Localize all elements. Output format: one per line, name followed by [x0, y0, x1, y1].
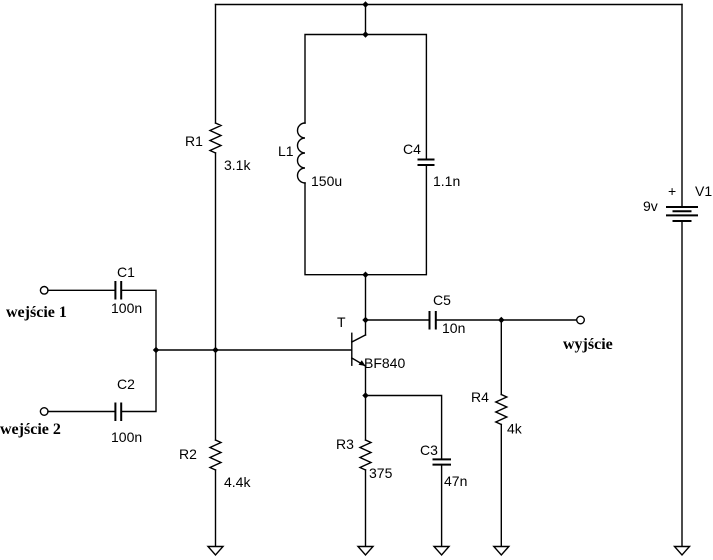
svg-text:1.1n: 1.1n [433, 173, 460, 189]
node input join junction [153, 347, 159, 353]
wire emitter to C3 [366, 396, 442, 460]
svg-text:L1: L1 [278, 143, 294, 159]
capacitor C3 [434, 458, 451, 460]
wire collector to C5 [366, 319, 430, 321]
battery V1 [643, 183, 712, 221]
node R4 junction [498, 317, 504, 323]
terminal wejscie 1 [40, 287, 48, 295]
wire V1 bottom [681, 221, 683, 546]
svg-text:T: T [337, 314, 346, 330]
wire input2 to C2 [48, 411, 115, 413]
node collector junction [362, 317, 368, 323]
svg-text:10n: 10n [442, 320, 465, 336]
transistor T BF840 [337, 314, 405, 396]
ground under R4 [494, 547, 509, 556]
svg-text:C2: C2 [117, 376, 135, 392]
wire tank top [305, 35, 426, 160]
wire input1 to C1 [48, 289, 115, 291]
node tank bottom junction [362, 272, 368, 278]
svg-text:R1: R1 [185, 133, 203, 149]
wire tank bottom [305, 165, 426, 275]
svg-text:100n: 100n [111, 300, 142, 316]
svg-text:150u: 150u [311, 173, 342, 189]
svg-text:C1: C1 [117, 264, 135, 280]
resistor R3 [336, 396, 393, 547]
resistor R2 [179, 350, 251, 546]
ground under C3 [434, 547, 449, 556]
capacitor C4 [419, 159, 434, 161]
wire tank to collector node [365, 275, 367, 320]
wire C3 to ground [441, 465, 443, 546]
svg-text:C3: C3 [420, 442, 438, 458]
svg-text:BF840: BF840 [364, 355, 405, 371]
svg-text:R4: R4 [471, 389, 489, 405]
ground under R3 [358, 547, 373, 556]
svg-text:375: 375 [369, 465, 393, 481]
svg-text:9v: 9v [643, 198, 658, 214]
svg-text:4k: 4k [507, 421, 523, 437]
terminal wejscie 2 [40, 408, 48, 416]
svg-text:wejście 1: wejście 1 [6, 304, 67, 321]
node top rail junction [362, 1, 368, 7]
terminal wyjscie [577, 316, 585, 324]
wire C1 to base node [121, 290, 156, 350]
capacitor C1 [114, 282, 116, 299]
resistor R4 [471, 320, 523, 546]
svg-text:3.1k: 3.1k [224, 157, 251, 173]
node emitter junction [362, 392, 368, 398]
inductor L1 [298, 123, 306, 183]
svg-text:R3: R3 [336, 436, 354, 452]
ground under V1 [675, 547, 690, 556]
wire top rail [216, 4, 683, 6]
svg-text:V1: V1 [695, 183, 712, 199]
svg-text:R2: R2 [179, 446, 197, 462]
svg-text:wejście 2: wejście 2 [0, 421, 61, 438]
svg-text:47n: 47n [444, 473, 467, 489]
node tank top junction [362, 31, 368, 37]
svg-text:C4: C4 [403, 141, 421, 157]
wire top rail to tank [365, 5, 367, 35]
wire base rail [156, 349, 352, 351]
svg-text:C5: C5 [433, 292, 451, 308]
ground under R2 [208, 547, 223, 556]
capacitor C2 [114, 404, 116, 421]
wire C2 to base node [121, 350, 156, 412]
svg-text:100n: 100n [111, 429, 142, 445]
svg-text:wyjście: wyjście [563, 336, 613, 353]
node base rail at R1 junction [212, 347, 218, 353]
capacitor C5 [429, 312, 431, 329]
resistor R1 [185, 5, 251, 351]
wire V1 top [681, 5, 683, 208]
svg-text:4.4k: 4.4k [224, 474, 251, 490]
wire C5 to output [436, 319, 577, 321]
svg-text:+: + [668, 183, 676, 199]
